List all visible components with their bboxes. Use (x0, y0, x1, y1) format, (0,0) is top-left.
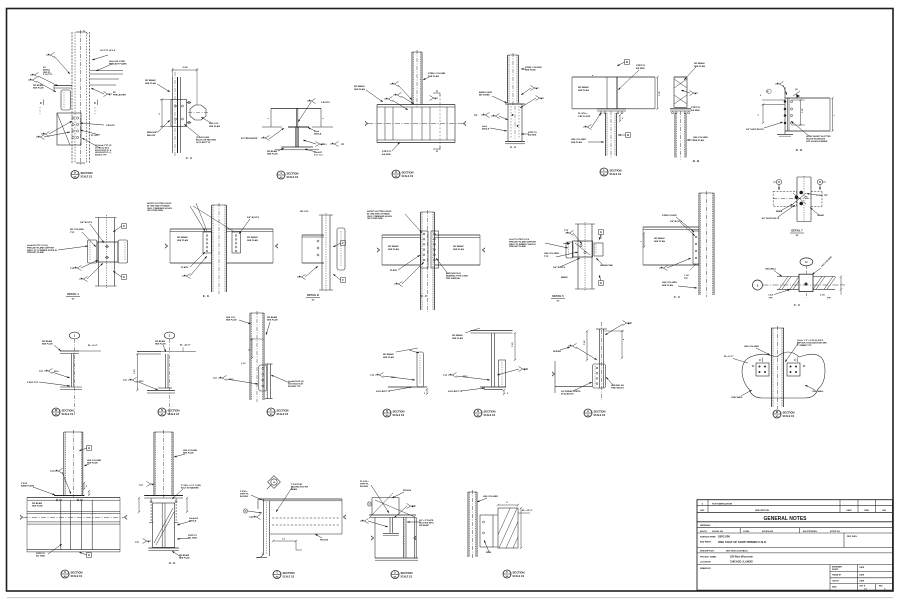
svg-text:TYP: TYP (70, 268, 75, 270)
sec4 leaders notes (241, 98, 345, 156)
C-C far-side bolt symbols (187, 101, 191, 124)
detail7 bolt cluster (793, 191, 807, 205)
sec4 top flange table (268, 108, 325, 127)
title block frame (697, 500, 893, 591)
C-C beam web lines (173, 72, 181, 157)
svg-text:TYP: TYP (443, 375, 448, 377)
CMU H bubble (800, 258, 813, 298)
CC2 leaders notes (641, 214, 697, 289)
svg-text:SEE PLAN: SEE PLAN (33, 87, 44, 90)
A3 post (596, 329, 607, 388)
svg-text:SECTION: SECTION (513, 570, 525, 574)
svg-text:WF BEAM: WF BEAM (694, 62, 705, 65)
CMU wall band with hatch (777, 277, 836, 290)
svg-text:EA SIDE: EA SIDE (360, 485, 369, 488)
R plate (499, 360, 506, 387)
svg-text:WF BEAM: WF BEAM (145, 79, 156, 82)
U leaders notes (360, 481, 434, 527)
D-D beam centerline and angles (785, 87, 789, 134)
detail7 label (790, 229, 804, 238)
svg-text:DRAFT:: DRAFT: (832, 568, 839, 571)
svg-text:SEE PLAN: SEE PLAN (571, 141, 582, 144)
section A-A: column base elevation (0, 0, 1, 1)
W J-bubble and centerline (69, 332, 79, 415)
S section bubble (61, 570, 83, 578)
svg-text:SCALE 1/2: SCALE 1/2 (62, 413, 74, 416)
svg-text:SHT. N.: SHT. N. (860, 586, 867, 588)
svg-text:N: N (161, 408, 163, 412)
V dims EL (497, 502, 533, 549)
W EL note (79, 344, 101, 351)
detail5 leaders notes (509, 230, 613, 279)
C-C HSS column octagon (188, 105, 208, 120)
svg-text:PRECAST PLANK: PRECAST PLANK (109, 63, 127, 66)
svg-text:W10X26: W10X26 (320, 540, 329, 542)
section A: hanger rail with thru bolts (0, 0, 1, 1)
W section bubble (52, 408, 74, 416)
HH cap plate (144, 496, 183, 499)
S base plate bolts (54, 496, 85, 502)
svg-text:L4x4: L4x4 (482, 125, 488, 128)
svg-text:H - H: H - H (169, 561, 176, 565)
svg-text:SEE PLAN: SEE PLAN (453, 248, 464, 251)
R leaders notes (443, 328, 529, 393)
svg-text:ELECTRODES:: ELECTRODES: (803, 531, 818, 533)
svg-text:SEE PLAN: SEE PLAN (226, 319, 237, 322)
svg-text:EA SIDE: EA SIDE (636, 67, 645, 70)
sec4 section bubble (277, 171, 299, 179)
svg-text:SECTION: SECTION (610, 168, 622, 172)
detail 5: HSS column with plank support angles (0, 0, 1, 1)
A-A column upper (508, 53, 519, 105)
C-C bracket plate (171, 100, 187, 127)
svg-text:SCALE 1/2: SCALE 1/2 (513, 575, 525, 578)
svg-text:H: H (805, 260, 807, 264)
svg-text:TYP: TYP (123, 380, 128, 382)
svg-text:DATE: DATE (846, 509, 852, 512)
title block GENERAL NOTES (697, 516, 893, 522)
svg-text:WF BEAM: WF BEAM (155, 340, 165, 343)
section D-D: bolted double angle connection (0, 0, 1, 1)
svg-text:W/ (2) BOLTS: W/ (2) BOLTS (561, 393, 574, 395)
svg-text:SECTION: SECTION (81, 171, 93, 175)
svg-text:WF BEAM: WF BEAM (267, 150, 277, 153)
svg-text:STIFF PL: STIFF PL (36, 553, 46, 555)
svg-text:EA SIDE: EA SIDE (528, 134, 537, 137)
svg-text:SECTION: SECTION (168, 408, 180, 412)
svg-text:SCALE 1/2: SCALE 1/2 (484, 414, 496, 417)
sec4 mid flange segments (262, 126, 333, 128)
F3 beam right (265, 364, 273, 399)
svg-text:SCALE 1/2: SCALE 1/2 (81, 175, 93, 178)
svg-text:SEE PLAN: SEE PLAN (267, 319, 278, 322)
svg-text:3-BOX TYP.: 3-BOX TYP. (27, 382, 39, 384)
svg-text:BE SCHED: BE SCHED (479, 95, 490, 97)
HH column (154, 430, 173, 498)
detail H precast column (72, 30, 90, 165)
svg-text:E70XX UN: E70XX UN (830, 531, 840, 533)
svg-text:CMU WALL: CMU WALL (765, 268, 777, 271)
svg-text:PROJECT NAME:: PROJECT NAME: (700, 555, 717, 558)
M C flags (752, 358, 805, 367)
svg-text:STD HOLES IN BEAM: STD HOLES IN BEAM (806, 140, 828, 143)
T vertical plate (256, 499, 270, 558)
M column (771, 326, 784, 409)
svg-text:SEE PLAN: SEE PLAN (209, 125, 220, 128)
svg-text:STIFF PL: STIFF PL (636, 65, 646, 67)
svg-text:HSS COL.: HSS COL. (226, 317, 236, 319)
C-C leaders and notes (145, 79, 220, 144)
svg-text:ANGLE: ANGLE (482, 128, 490, 131)
C-C dimensions (159, 66, 198, 128)
M section bubble (773, 410, 795, 418)
svg-text:TYP: TYP (628, 323, 633, 325)
svg-text:WF BEAM: WF BEAM (453, 245, 464, 248)
S beam band (20, 497, 127, 552)
svg-text:H: H (74, 171, 76, 175)
L HSS column below (606, 111, 617, 158)
N beam section (137, 352, 175, 393)
svg-text:SECTION: SECTION (783, 410, 795, 414)
L dims (619, 114, 624, 122)
svg-text:CMU WALL: CMU WALL (731, 396, 743, 399)
D-D base plate (777, 135, 793, 137)
svg-text:TYP: TYP (684, 278, 689, 280)
svg-text:G: G (600, 281, 602, 285)
D-D leaders notes (746, 121, 831, 143)
svg-text:SCALE 1/2: SCALE 1/2 (277, 413, 289, 416)
svg-text:OF PLATE TYP.: OF PLATE TYP. (196, 141, 211, 144)
svg-text:A: A (436, 89, 438, 93)
E-E label (203, 294, 209, 298)
V HSS column (468, 490, 477, 559)
svg-text:E - E: E - E (203, 294, 209, 298)
CC2 shear plate bolts (693, 231, 699, 264)
svg-text:W10X26: W10X26 (403, 490, 412, 492)
svg-text:SECTION: SECTION (393, 409, 405, 413)
detail5 label (551, 294, 565, 303)
R section bubble (474, 409, 496, 417)
svg-text:H: H (88, 446, 90, 450)
svg-text:WEB: WEB (486, 552, 492, 554)
svg-text:CMU WALL: CMU WALL (812, 390, 824, 393)
S column (64, 430, 83, 498)
svg-text:HSS COLUMN: HSS COLUMN (571, 139, 586, 141)
title block drawn-by and signature cells (700, 565, 893, 591)
section L: beam over HSS column cap plate (0, 0, 1, 1)
section S: HSS column base on beam (0, 0, 1, 1)
svg-text:SECTION: SECTION (283, 571, 295, 575)
K stiffener verticals (385, 107, 447, 140)
Q section bubble (383, 409, 405, 417)
L leaders notes (571, 65, 646, 144)
sec4 web and stiffener (296, 108, 299, 147)
svg-text:L4x4 AT: L4x4 AT (314, 151, 323, 154)
svg-text:SECTION: SECTION (594, 409, 606, 413)
svg-text:SEE PLAN: SEE PLAN (654, 240, 665, 243)
U right plates (404, 517, 417, 558)
A3 section bubble (584, 409, 606, 417)
M leaders notes (731, 339, 827, 399)
svg-text:H: H (88, 553, 90, 557)
CMU dims (820, 275, 844, 299)
detail H section bubble (71, 171, 93, 179)
T dim 7-0 (272, 539, 302, 551)
svg-text:A - A: A - A (510, 145, 516, 149)
section K: column over beam with stiffeners (0, 0, 1, 1)
svg-text:TYP: TYP (769, 298, 774, 300)
svg-text:DATE: DATE (860, 573, 866, 576)
detail7 leaders notes (762, 193, 829, 220)
section H-H: column base anchor bolts on beam (0, 0, 1, 1)
N section bubble (158, 408, 180, 416)
L stiffener verticals (607, 77, 617, 109)
svg-text:EL. +0'-4": EL. +0'-4" (88, 344, 98, 347)
svg-text:DESCRIPTION: DESCRIPTION (755, 510, 769, 512)
svg-text:DRAWN BY: DRAWN BY (700, 567, 712, 570)
svg-text:3/4" BOLTS: 3/4" BOLTS (80, 221, 92, 224)
svg-text:SECTION: SECTION (402, 170, 414, 174)
svg-text:B: B (626, 60, 628, 64)
CC2 HSS column (699, 191, 714, 297)
title block material row (697, 524, 893, 528)
svg-text:B - B: B - B (693, 159, 700, 163)
S H flags (79, 446, 91, 558)
section N: beam seat at elevation (0, 0, 1, 1)
svg-text:EL +12'-0": EL +12'-0" (522, 510, 533, 512)
svg-text:PLATE: PLATE (390, 269, 398, 272)
section E-E: beams to column web plates (0, 0, 1, 1)
B-B cap plate bolts (670, 109, 691, 114)
svg-text:C - C: C - C (794, 303, 801, 307)
svg-text:SEE PLAN: SEE PLAN (247, 239, 258, 242)
svg-text:TYP.: TYP. (70, 232, 75, 234)
D-D top leaders (766, 81, 800, 97)
svg-text:TYP: TYP (50, 471, 55, 473)
svg-text:PRECASTER: PRECASTER (113, 94, 126, 97)
svg-text:AND PAINT:: AND PAINT: (700, 541, 712, 544)
N dims (134, 353, 139, 391)
svg-text:HSS COLUMN: HSS COLUMN (183, 450, 197, 452)
svg-text:TYP: TYP (370, 375, 375, 377)
V shear plate bolts (480, 515, 493, 547)
svg-text:DETAIL 5: DETAIL 5 (552, 294, 564, 298)
svg-text:EA SIDE TYP.: EA SIDE TYP. (288, 385, 301, 388)
Q plate (417, 352, 424, 387)
A-A column elevation w bolts (505, 104, 525, 144)
CMU column square (799, 274, 813, 291)
svg-text:SECTION: SECTION (277, 408, 289, 412)
svg-text:PL 5/16: PL 5/16 (91, 135, 99, 137)
U post and T-foot (383, 517, 399, 535)
D-D dims (758, 95, 836, 132)
svg-text:3/4 PLATE TYP: 3/4 PLATE TYP (376, 390, 391, 393)
svg-text:MATERIAL:: MATERIAL: (700, 524, 711, 527)
detail4 E flags (113, 224, 126, 280)
svg-text:ASTM A325: ASTM A325 (762, 530, 774, 533)
detailB plate (337, 228, 345, 270)
section B-B: beam section on HSS column (0, 0, 1, 1)
svg-text:WF BEAM: WF BEAM (654, 237, 665, 240)
F-F label (421, 294, 427, 298)
svg-text:LOCATION:: LOCATION: (700, 560, 711, 563)
E-E top dim leader (193, 203, 233, 231)
svg-text:PRECAST PLANK: PRECAST PLANK (27, 251, 45, 254)
svg-text:3/4 PLATE TYP: 3/4 PLATE TYP (448, 390, 463, 393)
F3 leaders notes (213, 316, 304, 388)
T slotted plate rows (270, 499, 346, 534)
svg-text:D: D (819, 181, 821, 184)
svg-text:SECTION: SECTION (287, 171, 299, 175)
HH dims (138, 497, 188, 513)
K leaders and notes (354, 73, 446, 156)
detail H bolted plate (57, 113, 81, 145)
CC2 beam (643, 227, 699, 265)
E-E web plates w bolts (203, 232, 241, 253)
detail5 G flags (599, 230, 604, 286)
svg-text:TYP: TYP (39, 371, 44, 373)
svg-text:WF COL: WF COL (300, 211, 309, 213)
svg-text:HSS COL: HSS COL (209, 123, 219, 125)
svg-text:Q: Q (386, 409, 388, 413)
svg-text:SEE PLAN: SEE PLAN (267, 153, 278, 156)
title block revision rows (697, 500, 893, 513)
D-D label (796, 148, 803, 152)
L section bubble (600, 168, 622, 176)
svg-text:U: U (394, 571, 396, 575)
svg-text:WF BEAM: WF BEAM (419, 524, 429, 527)
F3 bolt plate (259, 365, 267, 391)
svg-text:PL 5/16 x: PL 5/16 x (578, 113, 588, 115)
U left vertical and base (371, 517, 418, 560)
B-B label (693, 159, 700, 163)
svg-text:(2): (2) (795, 89, 798, 91)
svg-text:3/4" SHOP BOLTS: 3/4" SHOP BOLTS (746, 128, 764, 131)
svg-text:SCALE 1/2: SCALE 1/2 (783, 415, 795, 418)
detailB F flags (333, 241, 345, 283)
HH leaders notes (135, 450, 201, 560)
svg-text:SCALE 1/2: SCALE 1/2 (71, 575, 83, 578)
svg-text:BELOW: BELOW (147, 135, 156, 137)
F-F beams (377, 235, 485, 265)
svg-text:M: M (776, 410, 778, 414)
K beam band (365, 105, 466, 143)
svg-text:WF BEAM: WF BEAM (388, 245, 399, 248)
A3 left slab edge (552, 361, 592, 393)
S stiffener verticals (61, 500, 92, 550)
svg-text:SEE PLAN: SEE PLAN (354, 88, 365, 91)
svg-text:PLATE: PLATE (181, 266, 189, 269)
svg-text:DETAIL B: DETAIL B (307, 293, 319, 297)
svg-text:SCALE 1/2: SCALE 1/2 (287, 176, 299, 179)
V hatched beam block (493, 508, 518, 548)
svg-text:EL +0'-0": EL +0'-0" (724, 356, 733, 358)
svg-text:BRACKET: BRACKET (147, 131, 158, 134)
detail H angle (61, 90, 71, 110)
svg-text:TYP: TYP (139, 485, 144, 487)
detail H plank lines (90, 71, 123, 86)
svg-text:SEE PLAN: SEE PLAN (388, 248, 399, 251)
svg-text:L4x4x1/4: L4x4x1/4 (189, 517, 199, 520)
svg-text:3/4" SHOP BOLTS: 3/4" SHOP BOLTS (762, 217, 780, 220)
svg-text:3 BOLTS: 3 BOLTS (106, 125, 115, 127)
svg-text:SPRING: SPRING (553, 351, 561, 353)
A3 centerline (601, 322, 603, 400)
N EL note (161, 345, 196, 352)
detail7 right beam lines (811, 192, 822, 207)
detail H beam flange left (54, 86, 72, 91)
svg-text:WF BEAM: WF BEAM (42, 340, 52, 343)
svg-text:SHEAR TAB: SHEAR TAB (600, 264, 613, 267)
svg-text:STIFF PL: STIFF PL (528, 132, 538, 134)
svg-text:3/4 DIA. UN: 3/4 DIA. UN (712, 530, 723, 533)
detailB centerline and beam (302, 213, 333, 291)
E-E beams (165, 229, 278, 263)
svg-text:TYP: TYP (412, 506, 417, 508)
F-F bolt plates (421, 231, 439, 268)
svg-text:THRU BOLTS: THRU BOLTS (611, 387, 624, 389)
K column (412, 50, 422, 107)
detailB leaders notes (297, 211, 318, 280)
L B-flags (617, 60, 630, 138)
svg-text:TYP: TYP (135, 542, 140, 544)
V leaders notes (477, 496, 498, 554)
svg-text:5 3/4: 5 3/4 (183, 66, 189, 69)
M CMU blob outline (742, 352, 825, 398)
svg-text:TYP: TYP (564, 230, 569, 232)
section F: HSS column with bolted rail (0, 0, 1, 1)
svg-text:SEE PLAN: SEE PLAN (383, 356, 394, 359)
svg-text:C: C (759, 359, 761, 362)
E-E column (212, 203, 227, 294)
detail B: beam to column flange (0, 0, 1, 1)
A3 dims (584, 330, 625, 361)
title block surface prep row (697, 533, 893, 548)
svg-text:CHK BY: CHK BY (832, 581, 840, 583)
detail4 center plate (97, 242, 118, 262)
svg-text:SEE PLAN: SEE PLAN (428, 75, 439, 78)
section U: hanger plate slotted into beam (0, 0, 1, 1)
svg-text:SEE PLAN: SEE PLAN (179, 557, 190, 560)
svg-text:BEAM: BEAM (291, 488, 297, 491)
svg-text:E: E (123, 275, 125, 279)
section C-C: beam to HSS column shear plate (0, 0, 1, 1)
svg-text:HSS COLUMN: HSS COLUMN (544, 253, 559, 255)
svg-text:EL. +22'-0": EL. +22'-0" (180, 345, 191, 347)
svg-text:WF BEAM: WF BEAM (578, 86, 589, 89)
svg-text:SEE PLAN: SEE PLAN (452, 337, 463, 340)
CMU CC label (794, 303, 801, 307)
F3 section bubble (267, 408, 289, 416)
svg-text:R: R (477, 409, 479, 413)
svg-text:V: V (506, 570, 508, 574)
svg-text:ANGLE: ANGLE (314, 133, 322, 136)
section V: beam to HSS column with grout (0, 0, 1, 1)
detail5 side plates (563, 242, 603, 258)
V section bubble (503, 570, 525, 578)
page bottom shadow line (7, 597, 893, 599)
svg-text:SECTION: SECTION (62, 408, 74, 412)
CMU leaders notes (765, 256, 833, 299)
svg-text:DATE: DATE (860, 566, 866, 569)
T leaders notes (240, 483, 309, 520)
svg-text:LLV TYP +R.U.S.: LLV TYP +R.U.S. (100, 50, 116, 52)
C-C label (186, 156, 193, 160)
svg-text:PER SHEDUAL: PER SHEDUAL (446, 277, 461, 280)
svg-text:C - C: C - C (674, 295, 681, 299)
svg-text:K: K (395, 170, 397, 174)
svg-text:STIFF PL: STIFF PL (382, 151, 392, 153)
